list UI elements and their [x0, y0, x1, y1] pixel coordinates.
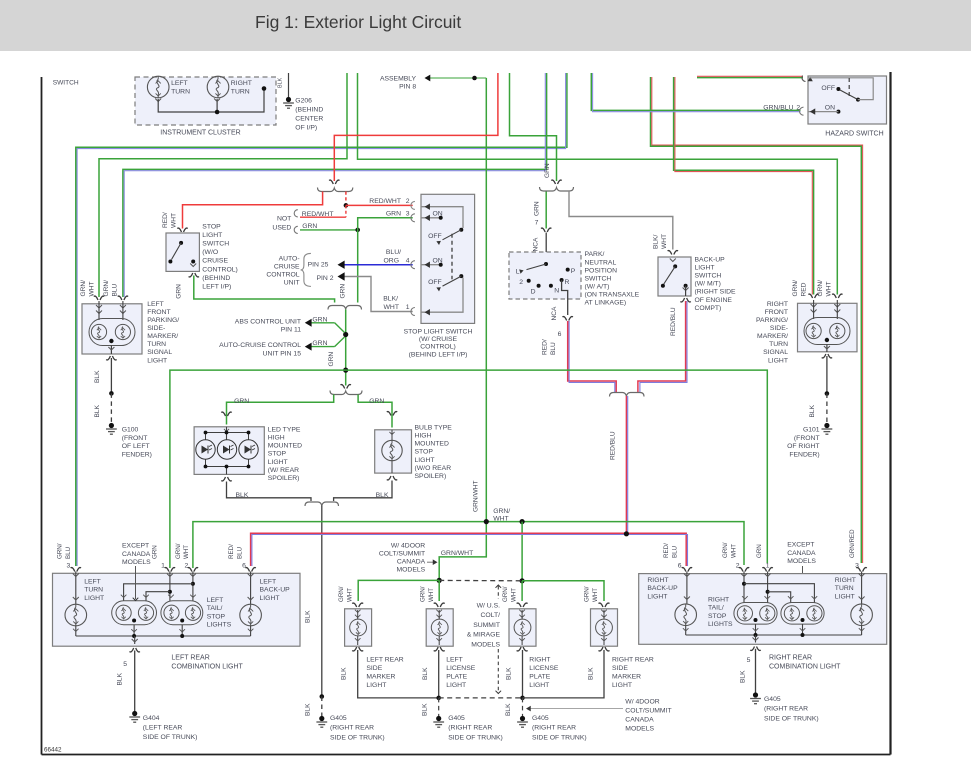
svg-text:CENTER: CENTER: [295, 116, 323, 123]
svg-text:MODELS: MODELS: [787, 558, 816, 565]
svg-text:PARK/: PARK/: [585, 251, 605, 258]
svg-text:SIGNAL: SIGNAL: [763, 349, 788, 356]
svg-text:BLU: BLU: [65, 547, 72, 559]
svg-text:TAIL/: TAIL/: [207, 605, 223, 612]
svg-text:GRN: GRN: [152, 545, 159, 559]
svg-text:OFF: OFF: [428, 233, 442, 240]
svg-text:ON: ON: [432, 257, 442, 264]
svg-text:BLK: BLK: [236, 492, 249, 499]
svg-text:HAZARD SWITCH: HAZARD SWITCH: [825, 131, 883, 138]
svg-text:(RIGHT REAR: (RIGHT REAR: [330, 725, 374, 732]
svg-text:LIGHT: LIGHT: [529, 682, 549, 689]
svg-text:COLT/SUMMIT: COLT/SUMMIT: [625, 708, 671, 715]
svg-text:ON: ON: [825, 104, 835, 111]
svg-text:SIDE OF TRUNK): SIDE OF TRUNK): [764, 715, 819, 722]
svg-text:G206: G206: [295, 98, 312, 105]
svg-text:SIDE OF TRUNK): SIDE OF TRUNK): [143, 734, 198, 741]
svg-text:PIN 11: PIN 11: [281, 327, 301, 334]
svg-text:TURN: TURN: [147, 341, 166, 348]
svg-text:LIGHT: LIGHT: [415, 457, 435, 464]
svg-text:MOUNTED: MOUNTED: [268, 443, 302, 450]
svg-text:RED/: RED/: [228, 544, 235, 559]
svg-text:TURN: TURN: [171, 89, 190, 96]
svg-text:PIN 8: PIN 8: [399, 84, 416, 91]
svg-text:RED/WHT: RED/WHT: [302, 211, 334, 218]
svg-text:ON: ON: [432, 211, 442, 218]
svg-text:SWITCH: SWITCH: [202, 241, 229, 248]
svg-text:BLK: BLK: [94, 404, 101, 417]
svg-text:RED/WHT: RED/WHT: [369, 198, 401, 205]
svg-text:SWITCH: SWITCH: [585, 275, 612, 282]
svg-text:GRN/: GRN/: [338, 586, 345, 602]
svg-text:BLK/: BLK/: [383, 295, 398, 302]
svg-text:GRN/: GRN/: [103, 280, 110, 297]
svg-text:(W/O: (W/O: [202, 249, 218, 256]
svg-text:COMPT): COMPT): [695, 305, 722, 312]
svg-text:GRN: GRN: [369, 398, 384, 405]
svg-text:RIGHT: RIGHT: [835, 577, 856, 584]
svg-text:6: 6: [558, 331, 562, 338]
svg-text:SWITCH: SWITCH: [695, 273, 722, 280]
svg-text:COLT/: COLT/: [480, 612, 500, 619]
svg-text:BLK: BLK: [422, 667, 429, 680]
svg-text:RIGHT: RIGHT: [529, 657, 550, 664]
svg-text:BLK: BLK: [376, 492, 389, 499]
svg-text:LIGHT: LIGHT: [260, 595, 280, 602]
svg-text:GRN/WHT: GRN/WHT: [473, 481, 480, 513]
svg-text:FENDER): FENDER): [122, 451, 152, 458]
svg-text:RED/BLU: RED/BLU: [670, 307, 677, 336]
svg-text:CONTROL): CONTROL): [202, 266, 238, 273]
svg-text:CANADA: CANADA: [122, 551, 151, 558]
svg-text:RED/BLU: RED/BLU: [610, 431, 617, 460]
svg-text:BLK: BLK: [588, 667, 595, 680]
svg-text:BLU: BLU: [236, 547, 243, 559]
svg-text:GRN/: GRN/: [420, 586, 427, 602]
svg-text:PLATE: PLATE: [446, 673, 467, 680]
svg-text:WHT: WHT: [346, 588, 353, 602]
svg-text:TURN: TURN: [84, 587, 103, 594]
svg-text:LEFT: LEFT: [147, 301, 164, 308]
svg-text:GRN/: GRN/: [722, 542, 729, 558]
svg-text:PARKING/: PARKING/: [147, 317, 179, 324]
svg-text:GRN/: GRN/: [792, 280, 799, 297]
svg-text:3: 3: [67, 563, 71, 570]
svg-text:(RIGHT REAR: (RIGHT REAR: [448, 725, 492, 732]
svg-text:GRN/: GRN/: [57, 543, 64, 559]
svg-text:LIGHT: LIGHT: [202, 232, 222, 239]
svg-text:7: 7: [535, 220, 539, 227]
svg-text:SIDE-: SIDE-: [770, 325, 788, 332]
svg-text:(W/ A/T): (W/ A/T): [585, 283, 610, 290]
svg-text:(W/ M/T): (W/ M/T): [695, 281, 721, 288]
svg-text:2: 2: [406, 198, 410, 205]
svg-text:GRN: GRN: [534, 201, 541, 216]
svg-text:RED/: RED/: [162, 212, 169, 228]
svg-text:BULB TYPE: BULB TYPE: [415, 425, 453, 432]
svg-text:& MIRAGE: & MIRAGE: [467, 632, 501, 639]
svg-text:SWITCH: SWITCH: [53, 80, 79, 87]
svg-text:STOP: STOP: [268, 451, 287, 458]
svg-text:WHT: WHT: [825, 281, 832, 296]
svg-text:USED: USED: [272, 225, 291, 232]
svg-text:UNIT PIN 15: UNIT PIN 15: [263, 350, 302, 357]
svg-text:SPOILER): SPOILER): [268, 475, 300, 482]
svg-text:LIGHT: LIGHT: [612, 682, 632, 689]
svg-text:SIDE: SIDE: [366, 665, 382, 672]
svg-text:LIGHT: LIGHT: [147, 357, 167, 364]
svg-text:GRN: GRN: [312, 340, 327, 347]
svg-text:W/ 4DOOR: W/ 4DOOR: [391, 542, 425, 549]
svg-text:(FRONT: (FRONT: [122, 435, 148, 442]
svg-text:NOT: NOT: [277, 215, 291, 222]
svg-text:GRN/: GRN/: [502, 586, 509, 602]
svg-text:N: N: [554, 288, 559, 295]
svg-text:1: 1: [161, 563, 165, 570]
svg-text:Fig 1: Exterior Light Circuit: Fig 1: Exterior Light Circuit: [255, 12, 461, 32]
svg-text:LIGHT: LIGHT: [835, 593, 855, 600]
svg-text:BACK-UP: BACK-UP: [695, 256, 726, 263]
svg-text:(FRONT: (FRONT: [794, 435, 820, 442]
svg-text:OF ENGINE: OF ENGINE: [695, 297, 733, 304]
svg-text:CRUISE: CRUISE: [274, 263, 300, 270]
svg-text:ABS CONTROL UNIT: ABS CONTROL UNIT: [235, 318, 301, 325]
svg-text:PARKING/: PARKING/: [756, 317, 788, 324]
svg-text:AT LINKAGE): AT LINKAGE): [585, 300, 627, 307]
svg-text:OF I/P): OF I/P): [295, 125, 317, 132]
svg-text:BLU: BLU: [550, 342, 557, 355]
svg-text:G404: G404: [143, 715, 160, 722]
svg-text:COMBINATION LIGHT: COMBINATION LIGHT: [769, 664, 841, 671]
svg-text:WHT: WHT: [428, 588, 435, 602]
svg-text:2: 2: [736, 563, 740, 570]
svg-text:SIGNAL: SIGNAL: [147, 349, 172, 356]
svg-text:GRN/: GRN/: [80, 280, 87, 297]
svg-text:LEFT: LEFT: [207, 597, 224, 604]
svg-text:LED TYPE: LED TYPE: [268, 427, 301, 434]
svg-text:RED/: RED/: [663, 543, 670, 558]
svg-text:BLK: BLK: [117, 672, 124, 685]
svg-text:R: R: [565, 279, 570, 286]
svg-text:RIGHT REAR: RIGHT REAR: [769, 655, 812, 662]
svg-text:3: 3: [406, 211, 410, 218]
svg-text:W/ U.S.: W/ U.S.: [477, 603, 501, 610]
svg-text:TAIL/: TAIL/: [708, 605, 724, 612]
svg-text:PIN 25: PIN 25: [308, 262, 329, 269]
svg-text:NEUTRAL: NEUTRAL: [585, 259, 617, 266]
svg-text:LIGHT: LIGHT: [446, 682, 466, 689]
svg-text:MARKER/: MARKER/: [147, 333, 178, 340]
svg-text:(W/ CRUISE: (W/ CRUISE: [419, 336, 458, 343]
svg-text:NCA: NCA: [533, 237, 540, 252]
svg-text:MODELS: MODELS: [471, 641, 500, 648]
svg-text:SIDE: SIDE: [612, 665, 628, 672]
svg-text:FRONT: FRONT: [765, 309, 788, 316]
svg-text:GRN: GRN: [386, 211, 401, 218]
svg-text:BACK-UP: BACK-UP: [260, 587, 291, 594]
svg-text:GRN: GRN: [544, 163, 551, 178]
svg-text:RIGHT: RIGHT: [231, 80, 252, 87]
svg-text:CONTROL): CONTROL): [420, 344, 456, 351]
svg-text:LEFT REAR: LEFT REAR: [171, 655, 209, 662]
svg-text:G405: G405: [764, 696, 781, 703]
svg-text:LICENSE: LICENSE: [446, 665, 476, 672]
svg-text:CANADA: CANADA: [397, 559, 426, 566]
svg-text:1: 1: [766, 563, 770, 570]
svg-text:BLK: BLK: [422, 703, 429, 716]
svg-text:GRN: GRN: [340, 284, 347, 299]
svg-text:LEFT: LEFT: [446, 657, 463, 664]
svg-text:MARKER: MARKER: [612, 673, 641, 680]
svg-text:LEFT: LEFT: [171, 80, 188, 87]
svg-text:NCA: NCA: [551, 306, 558, 321]
svg-text:(RIGHT REAR: (RIGHT REAR: [764, 706, 808, 713]
svg-text:BLK: BLK: [809, 404, 816, 417]
svg-text:(LEFT REAR: (LEFT REAR: [143, 725, 183, 732]
svg-text:GRN: GRN: [234, 398, 249, 405]
svg-text:OFF: OFF: [821, 85, 835, 92]
svg-text:SIDE OF TRUNK): SIDE OF TRUNK): [532, 734, 587, 741]
svg-text:SIDE OF TRUNK): SIDE OF TRUNK): [448, 734, 503, 741]
svg-text:STOP: STOP: [207, 613, 226, 620]
svg-text:LEFT I/P): LEFT I/P): [202, 284, 231, 291]
svg-text:1: 1: [406, 304, 410, 311]
svg-text:G405: G405: [330, 715, 347, 722]
svg-text:BLK: BLK: [505, 703, 512, 716]
svg-text:WHT: WHT: [384, 304, 399, 311]
svg-text:LIGHTS: LIGHTS: [207, 622, 232, 629]
svg-text:BLU: BLU: [671, 546, 678, 558]
svg-text:GRN/RED: GRN/RED: [849, 529, 856, 558]
svg-text:SIDE OF TRUNK): SIDE OF TRUNK): [330, 734, 385, 741]
svg-text:BLK: BLK: [305, 610, 312, 623]
svg-text:P: P: [571, 268, 576, 275]
svg-text:RED: RED: [800, 282, 807, 296]
svg-text:WHT: WHT: [510, 588, 517, 602]
svg-text:L: L: [516, 269, 520, 276]
svg-text:CANADA: CANADA: [787, 550, 816, 557]
svg-text:GRN: GRN: [302, 223, 317, 230]
svg-text:BLK: BLK: [94, 370, 101, 383]
svg-text:GRN/BLU: GRN/BLU: [763, 105, 793, 112]
svg-text:SPOILER): SPOILER): [415, 473, 447, 480]
svg-text:BLK: BLK: [341, 667, 348, 680]
svg-text:G100: G100: [122, 427, 139, 434]
svg-text:LIGHT: LIGHT: [695, 264, 715, 271]
svg-text:BLK: BLK: [740, 670, 747, 683]
svg-text:GRN/: GRN/: [493, 508, 510, 515]
svg-text:6: 6: [242, 563, 246, 570]
svg-text:MODELS: MODELS: [396, 567, 425, 574]
svg-text:CONTROL: CONTROL: [266, 271, 299, 278]
svg-text:MOUNTED: MOUNTED: [415, 441, 449, 448]
svg-text:BLK: BLK: [278, 77, 284, 88]
svg-text:LEFT: LEFT: [84, 579, 101, 586]
svg-text:PIN 2: PIN 2: [317, 275, 334, 282]
svg-text:EXCEPT: EXCEPT: [122, 543, 149, 550]
svg-text:(W/O REAR: (W/O REAR: [415, 465, 452, 472]
svg-text:BLK/: BLK/: [653, 235, 660, 249]
svg-text:TURN: TURN: [769, 341, 788, 348]
svg-text:WHT: WHT: [592, 588, 599, 602]
svg-text:GRN: GRN: [328, 352, 335, 367]
svg-text:LIGHT: LIGHT: [268, 459, 288, 466]
svg-text:BLK: BLK: [506, 667, 513, 680]
svg-text:MODELS: MODELS: [122, 559, 151, 566]
svg-text:RIGHT: RIGHT: [708, 597, 729, 604]
svg-text:AUTO-: AUTO-: [279, 255, 300, 262]
svg-text:(ON TRANSAXLE: (ON TRANSAXLE: [585, 292, 640, 299]
svg-text:LIGHT: LIGHT: [768, 357, 788, 364]
svg-text:STOP: STOP: [415, 449, 434, 456]
svg-text:LIGHT: LIGHT: [647, 593, 667, 600]
svg-text:RIGHT: RIGHT: [647, 577, 668, 584]
svg-text:RIGHT: RIGHT: [767, 301, 788, 308]
svg-text:MARKER/: MARKER/: [757, 333, 788, 340]
svg-text:SUMMIT: SUMMIT: [473, 622, 500, 629]
svg-text:ASSEMBLY: ASSEMBLY: [380, 76, 417, 83]
svg-text:BACK-UP: BACK-UP: [647, 585, 678, 592]
svg-text:WHT: WHT: [88, 281, 95, 296]
svg-text:HIGH: HIGH: [268, 435, 285, 442]
svg-text:(BEHIND: (BEHIND: [202, 275, 230, 282]
svg-text:LICENSE: LICENSE: [529, 665, 559, 672]
svg-text:WHT: WHT: [170, 213, 177, 228]
svg-text:PLATE: PLATE: [529, 673, 550, 680]
svg-text:2: 2: [519, 279, 523, 286]
svg-text:MODELS: MODELS: [625, 726, 654, 733]
svg-text:STOP: STOP: [708, 613, 727, 620]
svg-text:GRN: GRN: [312, 316, 327, 323]
svg-text:INSTRUMENT CLUSTER: INSTRUMENT CLUSTER: [160, 129, 240, 136]
svg-text:D: D: [531, 288, 536, 295]
svg-text:RIGHT REAR: RIGHT REAR: [612, 657, 654, 664]
svg-text:GRN/WHT: GRN/WHT: [441, 550, 473, 557]
svg-text:(W/ REAR: (W/ REAR: [268, 467, 299, 474]
svg-text:6: 6: [678, 563, 682, 570]
svg-text:AUTO-CRUISE CONTROL: AUTO-CRUISE CONTROL: [219, 342, 301, 349]
svg-text:TURN: TURN: [231, 89, 250, 96]
svg-text:CRUISE: CRUISE: [202, 258, 228, 265]
svg-text:G405: G405: [532, 715, 549, 722]
svg-text:STOP: STOP: [202, 223, 221, 230]
svg-text:BLU/: BLU/: [386, 249, 401, 256]
svg-text:TURN: TURN: [835, 585, 854, 592]
svg-text:WHT: WHT: [183, 545, 190, 559]
svg-text:2: 2: [185, 563, 189, 570]
svg-text:BLK: BLK: [305, 703, 312, 716]
svg-text:WHT: WHT: [730, 544, 737, 558]
svg-text:CANADA: CANADA: [625, 717, 654, 724]
svg-text:STOP LIGHT SWITCH: STOP LIGHT SWITCH: [404, 329, 473, 336]
svg-text:POSITION: POSITION: [585, 267, 618, 274]
svg-text:G405: G405: [448, 715, 465, 722]
svg-text:HIGH: HIGH: [415, 433, 432, 440]
svg-text:RED/: RED/: [542, 339, 549, 355]
svg-text:GRN/: GRN/: [584, 586, 591, 602]
svg-text:(BEHIND LEFT I/P): (BEHIND LEFT I/P): [409, 351, 468, 358]
svg-text:(BEHIND: (BEHIND: [295, 107, 323, 114]
svg-text:OF LEFT: OF LEFT: [122, 443, 150, 450]
svg-text:SIDE-: SIDE-: [147, 325, 165, 332]
svg-text:66442: 66442: [44, 747, 62, 754]
svg-text:5: 5: [747, 657, 751, 664]
svg-text:LEFT: LEFT: [260, 579, 277, 586]
svg-text:GRN: GRN: [175, 284, 182, 299]
svg-text:LIGHT: LIGHT: [84, 595, 104, 602]
svg-text:GRN/: GRN/: [175, 543, 182, 559]
svg-text:(RIGHT SIDE: (RIGHT SIDE: [695, 289, 737, 296]
svg-text:(RIGHT REAR: (RIGHT REAR: [532, 725, 576, 732]
svg-text:G101: G101: [803, 427, 820, 434]
svg-text:LEFT REAR: LEFT REAR: [366, 657, 403, 664]
svg-text:COMBINATION LIGHT: COMBINATION LIGHT: [171, 664, 243, 671]
svg-text:WHT: WHT: [661, 234, 668, 249]
svg-text:5: 5: [123, 661, 127, 668]
svg-text:OFF: OFF: [428, 279, 442, 286]
svg-text:4: 4: [406, 258, 410, 265]
svg-text:LIGHT: LIGHT: [366, 682, 386, 689]
svg-text:OF RIGHT: OF RIGHT: [787, 443, 819, 450]
svg-text:W/ 4DOOR: W/ 4DOOR: [625, 699, 659, 706]
svg-text:COLT/SUMMIT: COLT/SUMMIT: [379, 550, 425, 557]
svg-text:MARKER: MARKER: [366, 673, 395, 680]
svg-text:FENDER): FENDER): [789, 451, 819, 458]
svg-text:UNIT: UNIT: [284, 279, 300, 286]
svg-text:GRN: GRN: [756, 544, 763, 558]
svg-text:EXCEPT: EXCEPT: [787, 542, 814, 549]
svg-text:LIGHTS: LIGHTS: [708, 621, 733, 628]
svg-text:FRONT: FRONT: [147, 309, 170, 316]
svg-text:ORG: ORG: [384, 258, 399, 265]
svg-text:BLU: BLU: [111, 283, 118, 296]
